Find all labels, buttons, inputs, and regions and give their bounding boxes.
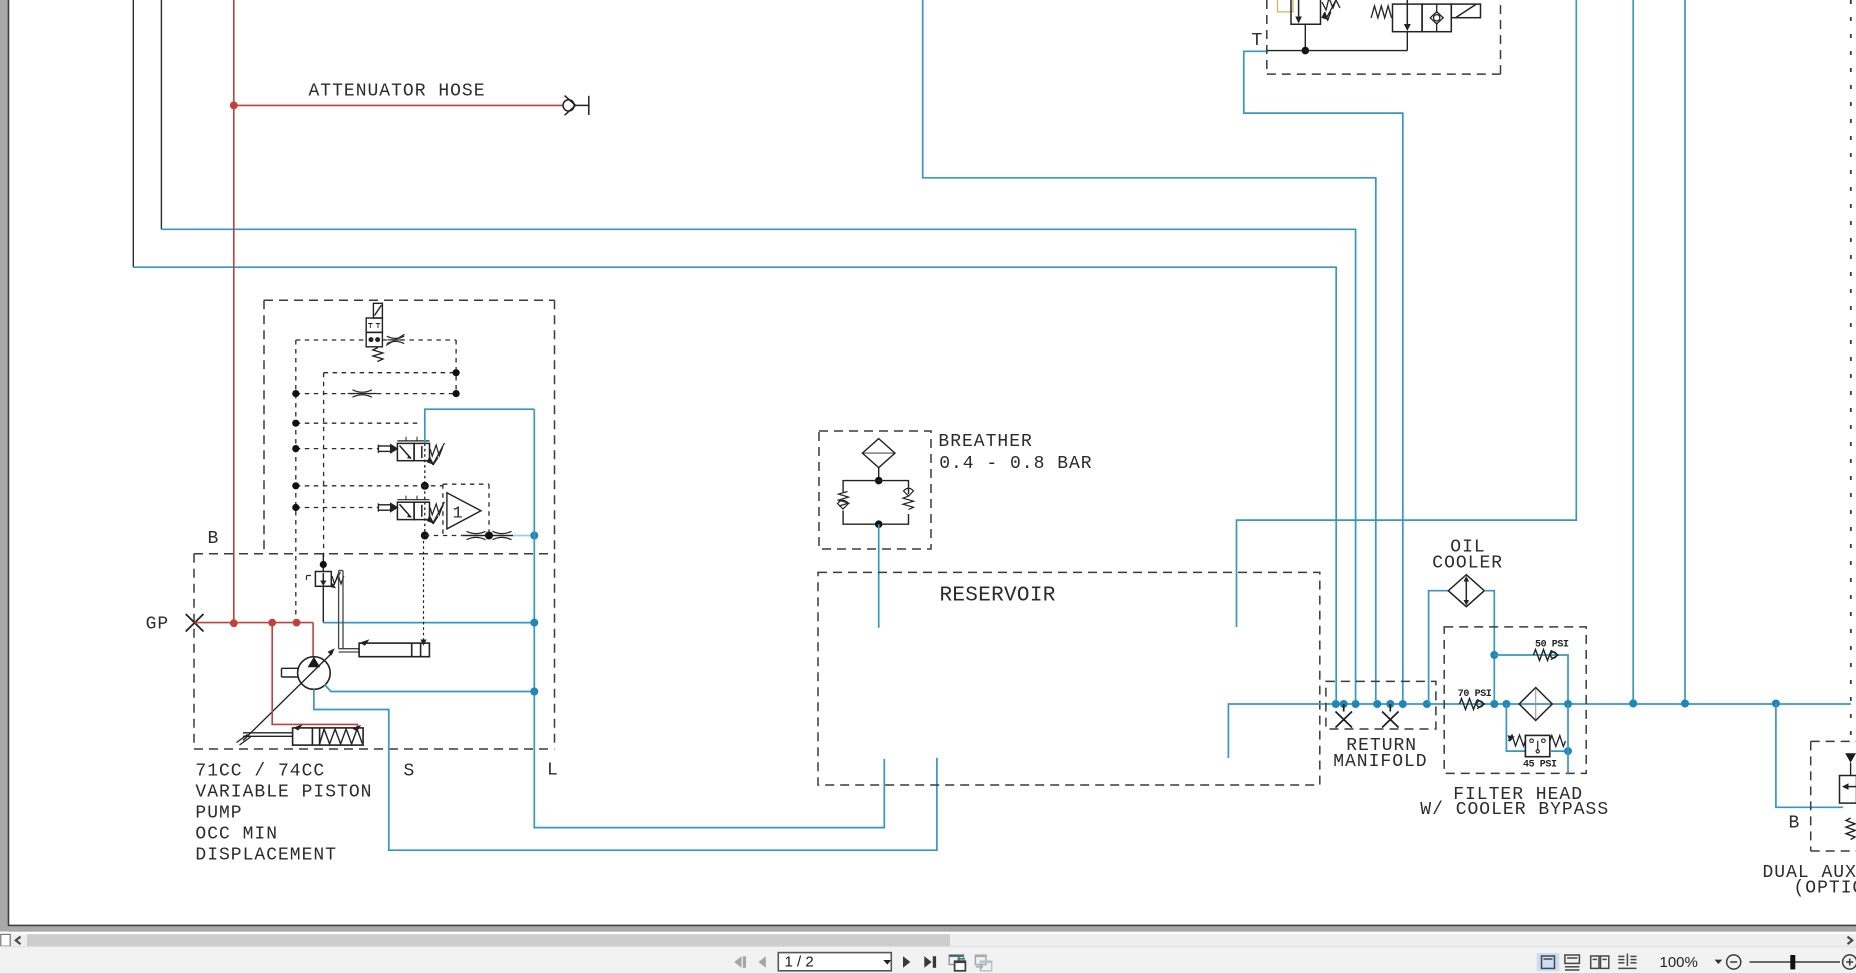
- svg-text:B: B: [1789, 814, 1801, 834]
- scrollbar left arrow: [16, 937, 21, 945]
- svg-text:BREATHER: BREATHER: [938, 432, 1032, 452]
- node: manifold plug 2: [1386, 700, 1394, 708]
- compensator cylinder: [293, 728, 364, 745]
- PRV2 spring with arrow: [430, 502, 445, 524]
- oil cooler connection right: [1484, 591, 1494, 704]
- node: manifold plug 1: [1340, 700, 1348, 708]
- wire: red attenuator vertical: [233, 0, 235, 623]
- toolbar: zoom in button: [1843, 955, 1856, 969]
- node: main at filter right: [1564, 700, 1572, 708]
- svg-text:COOLER: COOLER: [1432, 554, 1503, 574]
- wire: red attenuator hose horizontal: [234, 104, 563, 106]
- compensator rod end ticks: [237, 735, 251, 746]
- thermal bypass left spring: [1509, 735, 1526, 746]
- pilot valve block dashed enclosure (top right): [1267, 0, 1501, 74]
- node feedback 1: [421, 482, 429, 490]
- 50 psi relief: spring and check: [1534, 650, 1559, 661]
- node: manifold port 2: [1352, 700, 1360, 708]
- relief valve RV1 spring: [1322, 0, 1340, 10]
- svg-text:0.4 - 0.8 BAR: 0.4 - 0.8 BAR: [939, 454, 1092, 474]
- toolbar background: [0, 947, 1856, 973]
- breather dashed box: [819, 431, 931, 549]
- relief valve RV1 (top, cut off): [1291, 0, 1321, 24]
- svg-text:70 PSI: 70 PSI: [1458, 689, 1492, 700]
- node orifice: [485, 532, 493, 540]
- node: breather top: [875, 477, 883, 485]
- svg-text:OCC MIN: OCC MIN: [195, 824, 278, 844]
- node: T gallery junction: [1302, 47, 1310, 55]
- svg-text:B: B: [208, 529, 220, 549]
- toolbar: two page view icon: [1591, 956, 1609, 968]
- pilot line row 4 to PRV1: [296, 448, 379, 450]
- wire: blue staircase A (tank line): [923, 0, 1376, 700]
- reservoir dashed box: [818, 572, 1320, 785]
- wire: red drop to pump outlet: [312, 623, 314, 658]
- thermal bypass right spring: [1550, 736, 1566, 747]
- svg-text:100%: 100%: [1660, 954, 1698, 971]
- node row6 left: [292, 504, 299, 511]
- amplifier triangle 1: [447, 493, 481, 529]
- svg-text:GP: GP: [146, 615, 170, 635]
- wire: blue vertical E to main return: [1684, 0, 1686, 704]
- wire: blue L gallery to valve drain: [323, 622, 534, 624]
- svg-text:71CC / 74CC: 71CC / 74CC: [195, 761, 325, 781]
- node: main return corner: [1772, 700, 1780, 708]
- window background strip bottom: [8, 926, 1856, 931]
- wire: blue breather to reservoir: [878, 524, 880, 628]
- svg-text:T: T: [1252, 31, 1264, 51]
- servo mechanical link (double line): [339, 571, 360, 653]
- node: breather bottom: [875, 520, 883, 528]
- amplifier dashed box: [425, 484, 489, 535]
- node row4 left: [292, 445, 299, 452]
- svg-text:1 / 2: 1 / 2: [785, 954, 814, 971]
- wire: blue staircase B from pilot block T port: [1244, 51, 1403, 700]
- dual aux valve box: [1840, 776, 1856, 804]
- pump outlet flow triangle: [308, 657, 321, 667]
- manifold plugged port X2: [1382, 704, 1399, 728]
- pilot line row 2 with fixed orifice: [296, 393, 456, 395]
- node on row1 right: [453, 369, 460, 376]
- dual aux dashed box: [1811, 741, 1856, 851]
- wire: RV1 drain to T gallery: [1304, 24, 1306, 50]
- thermal bypass valve box: [1525, 735, 1549, 756]
- dual aux relief triangle: [1845, 753, 1856, 763]
- svg-text:RESERVOIR: RESERVOIR: [940, 585, 1056, 608]
- node: bypass right: [1564, 747, 1572, 755]
- pump variable displacement arrow: [243, 653, 333, 741]
- wire: red GP line into pump: [194, 622, 313, 624]
- page left border: [8, 0, 10, 926]
- node: main return at E: [1681, 700, 1689, 708]
- PRV1 spring with arrow: [430, 443, 445, 465]
- wire: blue case drain from pump: [325, 685, 535, 692]
- wire: blue L gallery vertical: [534, 409, 884, 827]
- wire: black supply line left outer: [132, 0, 134, 267]
- svg-text:MANIFOLD: MANIFOLD: [1333, 752, 1427, 772]
- wire: T gallery horizontal: [1267, 50, 1408, 52]
- node: red junction attenuator tee: [230, 102, 238, 110]
- wire: black supply line left inner: [160, 0, 162, 229]
- wire: blue return from left inner to manifold: [161, 229, 1355, 700]
- svg-text:ATTENUATOR HOSE: ATTENUATOR HOSE: [309, 81, 486, 101]
- oil cooler connection left: [1429, 591, 1449, 704]
- servo orifice curves: [467, 531, 512, 539]
- pump case dashed enclosure: [194, 554, 555, 749]
- toolbar: page number box: [778, 953, 891, 971]
- filter head dashed box: [1444, 627, 1586, 774]
- displacement control valve DCV: [315, 572, 331, 587]
- node: blue L gallery at 691: [530, 688, 538, 696]
- wire: blue return from left outer to manifold: [133, 267, 1336, 700]
- toolbar: two page scrolling icon: [1618, 954, 1636, 969]
- pump suction port stub: [282, 668, 299, 677]
- toolbar: next view icon (disabled): [975, 955, 991, 971]
- dashed boundary far right: [1850, 0, 1852, 741]
- SV1 solenoid actuator box: [1451, 4, 1480, 18]
- toolbar: previous view icon (green arrow box): [949, 955, 965, 971]
- node row3 left: [292, 420, 299, 427]
- node: red tee at attenuator drop: [230, 619, 238, 627]
- pilot gallery vertical right: [455, 340, 457, 394]
- quick disconnect coupler at attenuator hose end: [563, 96, 589, 116]
- toolbar: zoom slider thumb: [1790, 955, 1795, 969]
- pilot line PL right with orifice: [382, 339, 456, 341]
- wire: 50psi bypass branch: [1494, 655, 1568, 704]
- pump circle P1: [298, 657, 331, 690]
- toolbar: previous page button (disabled): [759, 956, 766, 968]
- wire: filter outlet stub to box edge: [1567, 704, 1569, 773]
- wire: thermal bypass right leg: [1550, 750, 1568, 752]
- breather relief circuit frame: [843, 481, 908, 525]
- 70 psi check on main line: [1460, 699, 1485, 710]
- compensator port arrow left: [293, 724, 303, 730]
- wire: thermal bypass left leg: [1506, 704, 1525, 751]
- node: control valve inlet: [320, 561, 327, 568]
- svg-text:S: S: [404, 761, 416, 781]
- wire: SV1 outlet down to T gallery: [1406, 32, 1408, 51]
- pump control block dashed enclosure: [264, 300, 555, 554]
- pilot line PL left: [296, 339, 366, 341]
- oil cooler diamond: [1448, 575, 1484, 607]
- compensator piston rod: [243, 733, 293, 737]
- pilot gallery vertical left: [295, 340, 297, 623]
- wire: blue staircase C to reservoir: [1237, 0, 1577, 627]
- SV1 check valve in second position: [1430, 4, 1443, 32]
- scrollbar thumb: [27, 934, 950, 946]
- node: manifold port 4: [1399, 700, 1407, 708]
- solenoid valve SV1 body (2 position): [1393, 0, 1452, 32]
- page bottom border: [8, 925, 1856, 927]
- node feedback 2: [421, 532, 429, 540]
- pressure limiter valve PL (top of control block): [366, 303, 382, 347]
- toolbar: first page button (disabled): [734, 956, 746, 968]
- svg-text:L: L: [547, 760, 559, 780]
- servo cylinder: [359, 643, 429, 657]
- node: main at cooler down: [1490, 700, 1498, 708]
- node: manifold port 3: [1373, 700, 1381, 708]
- svg-text:DISPLACEMENT: DISPLACEMENT: [195, 845, 337, 865]
- proportional valve PRV1 inlet arrow: [378, 445, 391, 453]
- node row5 left: [292, 482, 299, 489]
- svg-text:50 PSI: 50 PSI: [1535, 639, 1569, 650]
- manifold plugged port X1: [1336, 704, 1353, 728]
- compensator spring: [320, 729, 363, 744]
- scrollbar right arrow: [1848, 937, 1853, 945]
- node: bypass branch left: [1502, 700, 1510, 708]
- svg-text:1: 1: [453, 505, 463, 524]
- pilot line row 1: [324, 372, 457, 374]
- svg-text:45 PSI: 45 PSI: [1523, 759, 1557, 770]
- toolbar: scrolling view icon: [1565, 955, 1580, 970]
- filter element diamond: [1519, 688, 1552, 721]
- GP plugged port X: [186, 614, 204, 632]
- node row2 left: [292, 390, 299, 397]
- return manifold dashed box: [1326, 681, 1436, 729]
- relief valve RV1 adjust arrow: [1325, 0, 1336, 20]
- wire: feed into displacement control valve: [322, 554, 324, 572]
- orange solenoid wire box (cut off): [1278, 0, 1294, 12]
- toolbar: next page button: [903, 956, 910, 968]
- svg-text:VARIABLE PISTON: VARIABLE PISTON: [195, 782, 372, 802]
- horizontal scrollbar track: [0, 934, 1856, 946]
- DCV left pilot stub: [307, 576, 312, 581]
- toolbar: single page view icon (active): [1537, 953, 1560, 971]
- toolbar: last page button: [924, 956, 936, 968]
- feedback dashed to servo piston: [423, 536, 425, 641]
- pilot line row 5: [296, 485, 443, 487]
- solenoid valve SV1 spring (left side): [1371, 6, 1392, 18]
- proportional valve PRV2 inlet arrow: [378, 503, 391, 511]
- wire: blue vertical D to main return: [1632, 0, 1634, 704]
- toolbar: zoom dropdown caret: [1715, 960, 1723, 964]
- PL spring below: [373, 348, 383, 362]
- svg-text:PUMP: PUMP: [195, 803, 242, 823]
- wire: blue feed to PRV1: [425, 409, 535, 443]
- toolbar: zoom slider track: [1750, 961, 1841, 963]
- feedback dotted line PRV1: [424, 443, 426, 485]
- node: red tee at compensator drop: [268, 619, 276, 627]
- pilot line row 3: [296, 422, 420, 424]
- node: cooler branch: [1423, 700, 1431, 708]
- breather filter diamond: [862, 439, 895, 481]
- wire: blue to dual aux B port: [1776, 704, 1843, 807]
- pilot gallery vertical mid: [323, 373, 325, 565]
- node: red tee at pilot gallery: [293, 619, 301, 627]
- proportional valve PRV2 body: [397, 496, 429, 520]
- wire: blue suction from pump to reservoir: [314, 689, 937, 850]
- node: main return at D: [1629, 700, 1637, 708]
- node: blue L gallery at 622: [530, 619, 538, 627]
- gap above scrollbar: [0, 932, 1856, 934]
- node row2 right: [453, 390, 460, 397]
- pilot line row 6 to PRV2: [296, 507, 379, 509]
- svg-text:W/ COOLER BYPASS: W/ COOLER BYPASS: [1420, 800, 1609, 820]
- variable orifice on PL pilot line: [386, 334, 405, 345]
- DCV spring right: [332, 572, 344, 586]
- breather right check spring: [903, 488, 914, 509]
- toolbar: zoom out button: [1727, 955, 1741, 969]
- svg-text:(OPTION: (OPTION: [1794, 878, 1856, 898]
- compensator spring end arrow: [352, 725, 361, 732]
- wire: blue reservoir suction standpipe to manifold: [1228, 704, 1335, 758]
- breather left check spring: [838, 492, 849, 510]
- fixed orifice row2: [348, 390, 377, 397]
- feedback dotted line PRV2: [424, 486, 426, 536]
- servo orifice line: [462, 535, 513, 537]
- wire: red to compensator: [272, 623, 357, 728]
- node: manifold port 1: [1332, 700, 1340, 708]
- node: 50psi branch tee: [1490, 651, 1498, 659]
- wire: light blue orifice to L gallery: [513, 535, 534, 537]
- wire: DCV drain down to L gallery: [322, 586, 324, 622]
- proportional valve PRV1 body: [397, 437, 429, 461]
- servo cylinder port arrow: [360, 639, 370, 645]
- scrollbar corner box: [1, 934, 10, 946]
- wire: blue main return line: [1336, 703, 1851, 705]
- window background strip left: [0, 0, 8, 932]
- node: blue L gallery at orifice: [530, 532, 538, 540]
- dual aux spring: [1846, 818, 1855, 839]
